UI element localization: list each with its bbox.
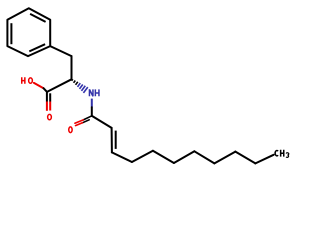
wire bond C4 to C5	[132, 151, 153, 162]
bond N to amide C blue part	[91, 99, 93, 108]
benzene double bond inner line top-right	[30, 14, 45, 22]
wire bond chiral C to carboxyl C	[47, 79, 72, 92]
label CH3	[275, 150, 289, 158]
label HO	[22, 77, 33, 84]
C2=C3 double bond main line	[111, 128, 113, 152]
bond HO to carboxyl C red part	[34, 83, 44, 88]
wire bond C8 to C9	[214, 152, 235, 164]
wire bond amide C to C2	[92, 116, 112, 128]
benzene double bond inner line left	[10, 23, 12, 44]
bond N to amide C black part	[91, 107, 93, 116]
wire bond C9 to C10	[235, 152, 255, 164]
amide C=O inner line	[76, 120, 90, 126]
wire bond C5 to C6	[153, 151, 174, 163]
wire bond C10 to CH3	[255, 155, 273, 164]
carboxyl C=O double bond line 1	[46, 93, 48, 111]
wire bond ring to CH2	[50, 46, 71, 56]
wire bond C6 to C7	[174, 151, 195, 163]
wire bond C7 to C8	[194, 151, 214, 163]
benzene ring outline	[7, 8, 50, 56]
benzene double bond inner line bottom-right	[29, 44, 45, 51]
carboxyl C=O double bond line 2	[49, 93, 51, 110]
bond HO to carboxyl C black part	[44, 88, 48, 92]
stereo hash wedge chiral C to N	[72, 79, 88, 93]
label O amide	[69, 127, 72, 133]
C2=C3 double bond inner line	[115, 131, 117, 149]
wire bond C3 to C4	[112, 152, 132, 162]
wire bond CH2 to chiral C	[71, 56, 73, 79]
amide C=O main line	[75, 116, 92, 123]
label NH	[89, 89, 99, 96]
label O carboxyl	[48, 114, 52, 119]
